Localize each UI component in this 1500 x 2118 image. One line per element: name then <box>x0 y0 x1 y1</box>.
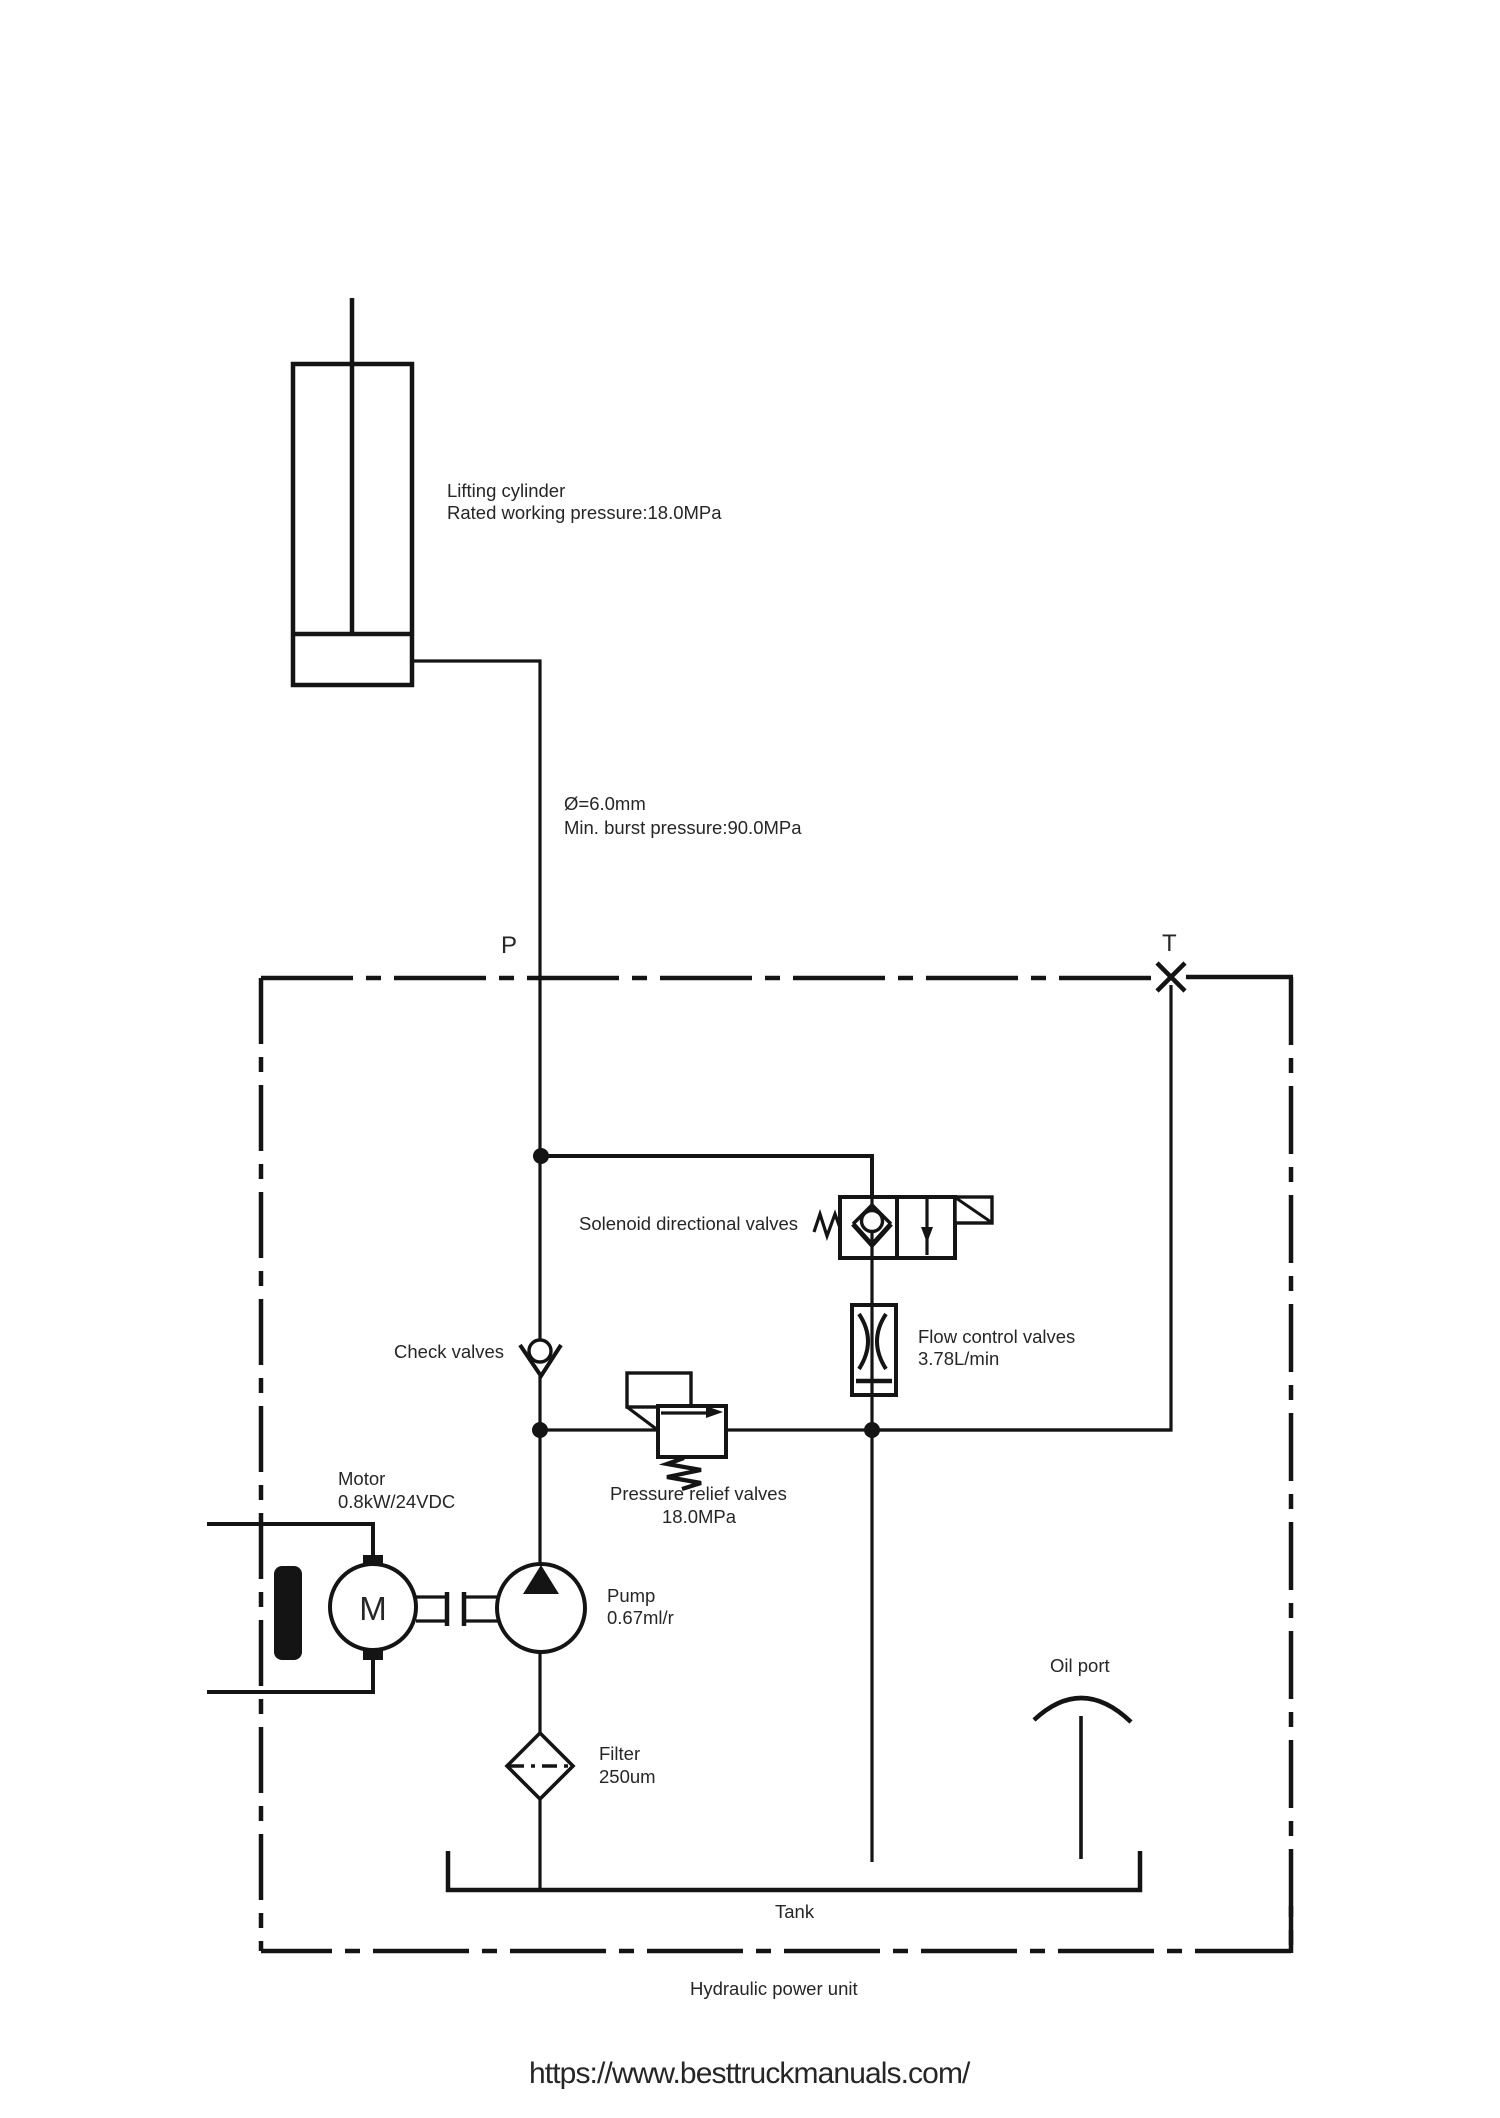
lifting cylinder rod <box>350 298 355 634</box>
pump circle <box>497 1564 585 1652</box>
wire pump to filter <box>538 1652 541 1733</box>
svg-text:Solenoid directional valves: Solenoid directional valves <box>579 1213 798 1234</box>
wire P to solenoid valve <box>541 1156 872 1197</box>
solenoid valve spring <box>814 1214 840 1236</box>
svg-text:P: P <box>501 932 517 959</box>
solenoid valve internal line <box>870 1197 873 1258</box>
enclosure border left (dash-dot) <box>259 978 264 1951</box>
svg-text:Flow control valves: Flow control valves <box>918 1326 1075 1347</box>
pump triangle <box>523 1565 559 1594</box>
svg-text:Min. burst pressure:90.0MPa: Min. burst pressure:90.0MPa <box>564 817 802 838</box>
svg-text:250um: 250um <box>599 1766 656 1787</box>
filter dash-dot line <box>509 1764 571 1768</box>
solenoid valve poppet seat V (diamond bottom) <box>853 1224 891 1245</box>
svg-text:Pressure relief valves: Pressure relief valves <box>610 1483 787 1504</box>
motor circle <box>330 1564 416 1650</box>
lifting cylinder piston <box>293 632 412 637</box>
flow control valve bottom bar <box>856 1379 892 1384</box>
node junction dot flow-control/T <box>864 1422 880 1438</box>
pressure relief valve pilot box <box>627 1373 691 1407</box>
solenoid valve square 1 <box>840 1197 897 1258</box>
motor supply wire top <box>207 1524 373 1556</box>
pressure relief valve diagonal <box>627 1407 659 1431</box>
pressure relief valve arrow <box>661 1411 707 1414</box>
solenoid coil box <box>955 1197 992 1223</box>
wire filter to tank <box>538 1799 541 1890</box>
enclosure border right (dash-dot) <box>1289 977 1294 1953</box>
solenoid valve poppet diamond top edges <box>853 1205 891 1224</box>
enclosure border top-right solid segment <box>1186 975 1293 980</box>
check valve seat V <box>520 1345 561 1376</box>
svg-text:Motor: Motor <box>338 1468 385 1489</box>
wire check valve to relief/pump junction <box>538 1376 541 1564</box>
solenoid valve poppet circle <box>862 1211 883 1232</box>
pressure relief valve spring <box>667 1458 701 1489</box>
svg-text:T: T <box>1162 930 1177 957</box>
svg-text:3.78L/min: 3.78L/min <box>918 1348 999 1369</box>
flow control valve left arc <box>859 1314 868 1369</box>
motor terminal top <box>363 1555 383 1565</box>
filter diamond <box>507 1733 573 1799</box>
flow control valve body <box>852 1305 896 1395</box>
enclosure border bottom (dash-dot) <box>261 1949 1291 1954</box>
svg-text:Hydraulic power unit: Hydraulic power unit <box>690 1978 858 1999</box>
wire cylinder to P line <box>412 661 540 1340</box>
plugged port X at T <box>1157 963 1185 991</box>
coupling shaft <box>416 1595 447 1598</box>
motor supply wire bottom <box>207 1660 373 1692</box>
svg-text:M: M <box>359 1590 387 1627</box>
svg-text:Check valves: Check valves <box>394 1341 504 1362</box>
pressure relief valve main box <box>658 1406 726 1457</box>
lifting cylinder body <box>293 364 412 685</box>
svg-text:18.0MPa: 18.0MPa <box>662 1506 737 1527</box>
tank <box>448 1851 1140 1890</box>
oil port arc <box>1034 1698 1131 1722</box>
svg-text:Rated working pressure:18.0MPa: Rated working pressure:18.0MPa <box>447 502 722 523</box>
svg-text:https://www.besttruckmanuals.c: https://www.besttruckmanuals.com/ <box>529 2057 971 2090</box>
solenoid valve arrow in square 2 <box>925 1199 928 1255</box>
motor terminal bottom <box>363 1650 383 1660</box>
wire solenoid valve to flow control <box>870 1258 873 1430</box>
enclosure border bottom-right corner stub <box>1289 1906 1294 1953</box>
node junction dot P/solenoid <box>533 1148 549 1164</box>
svg-text:Oil port: Oil port <box>1050 1655 1110 1676</box>
svg-text:Ø=6.0mm: Ø=6.0mm <box>564 793 646 814</box>
svg-text:0.67ml/r: 0.67ml/r <box>607 1607 674 1628</box>
svg-text:Pump: Pump <box>607 1585 655 1606</box>
wire junction to tank <box>870 1430 873 1862</box>
svg-text:0.8kW/24VDC: 0.8kW/24VDC <box>338 1491 455 1512</box>
wire relief branch <box>540 1428 1171 1431</box>
solenoid coil diagonal <box>956 1198 991 1222</box>
svg-text:Tank: Tank <box>775 1901 815 1922</box>
svg-text:Filter: Filter <box>599 1743 640 1764</box>
svg-text:Lifting cylinder: Lifting cylinder <box>447 480 565 501</box>
solenoid valve square 2 <box>897 1197 955 1258</box>
battery bar <box>274 1566 302 1660</box>
T return line down and left <box>872 985 1171 1430</box>
flow control valve line through <box>870 1305 873 1395</box>
node junction dot below check valve <box>532 1422 548 1438</box>
enclosure border top (dash-dot) <box>261 976 1155 981</box>
flow control valve right arc <box>877 1314 886 1369</box>
check valve circle <box>529 1340 551 1362</box>
oil port stem <box>1079 1716 1083 1859</box>
